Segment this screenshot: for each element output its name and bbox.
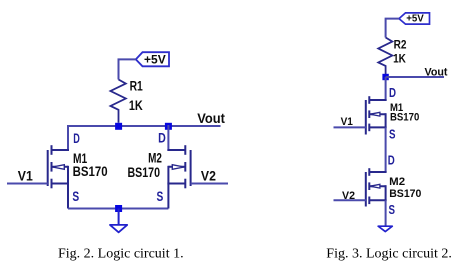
transistor M1 BS170 (circuit 2) — [366, 96, 420, 134]
svg-text:S: S — [389, 128, 396, 142]
svg-text:Vout: Vout — [425, 67, 448, 79]
svg-text:S: S — [389, 203, 396, 217]
svg-text:R2: R2 — [394, 40, 407, 52]
ground (circuit 1) — [110, 209, 127, 233]
svg-text:S: S — [72, 188, 79, 204]
svg-text:Fig. 3. Logic circuit 2.: Fig. 3. Logic circuit 2. — [326, 247, 452, 262]
wire rail to M2 drain — [167, 125, 169, 151]
transistor M1 BS170 (circuit 1) — [48, 145, 108, 208]
resistor R1 — [111, 79, 144, 123]
svg-text:V2: V2 — [342, 190, 355, 202]
svg-text:1K: 1K — [129, 98, 143, 113]
svg-text:Fig. 2. Logic circuit 1.: Fig. 2. Logic circuit 1. — [58, 247, 184, 262]
svg-text:BS170: BS170 — [73, 164, 108, 179]
svg-text:R1: R1 — [130, 79, 144, 94]
wire junction to M1 drain (circuit 2) — [385, 77, 387, 101]
ground (circuit 2) — [378, 226, 392, 231]
power flag +5V (circuit 2) — [399, 13, 430, 25]
node junction on source rail — [115, 205, 122, 212]
svg-text:D: D — [388, 154, 395, 168]
svg-text:BS170: BS170 — [390, 112, 419, 124]
svg-text:Vout: Vout — [197, 111, 225, 126]
resistor R2 — [378, 38, 406, 75]
wire drain rail with Vout — [68, 125, 221, 127]
wire V1 input (circuit 1) — [7, 168, 48, 183]
svg-text:D: D — [73, 130, 80, 146]
svg-text:M2: M2 — [148, 151, 162, 166]
wire from +5V flag to resistor R2 — [386, 19, 399, 38]
svg-text:1K: 1K — [393, 54, 406, 66]
svg-text:+5V: +5V — [144, 52, 166, 66]
node junction under R1 — [115, 123, 122, 130]
svg-text:V2: V2 — [201, 169, 216, 184]
power flag +5V (circuit 1) — [136, 52, 169, 66]
svg-text:BS170: BS170 — [389, 188, 421, 200]
wire rail to M1 drain — [67, 125, 69, 151]
wire M1 source to M2 drain — [385, 127, 387, 172]
svg-text:V1: V1 — [18, 168, 33, 183]
wire V2 input (circuit 1) — [191, 169, 228, 184]
wire Vout (circuit 2) — [386, 67, 448, 79]
transistor M2 BS170 (circuit 1, mirrored) — [128, 145, 191, 208]
svg-text:D: D — [158, 129, 166, 145]
wire source rail — [68, 208, 168, 210]
wire M2 source to ground (circuit 2) — [385, 200, 387, 226]
svg-text:D: D — [389, 86, 396, 100]
svg-text:+5V: +5V — [406, 14, 424, 25]
transistor M2 BS170 (circuit 2) — [366, 168, 422, 206]
svg-text:V1: V1 — [341, 116, 353, 128]
svg-text:S: S — [157, 188, 164, 204]
wire V1 input (circuit 2) — [334, 116, 366, 128]
wire from +5V flag to resistor R1 — [119, 59, 136, 79]
svg-text:M2: M2 — [389, 176, 405, 188]
svg-text:BS170: BS170 — [128, 165, 161, 180]
wire V2 input (circuit 2) — [334, 190, 366, 202]
node junction at M2 drain — [165, 123, 172, 130]
node junction under R2 — [382, 74, 388, 80]
